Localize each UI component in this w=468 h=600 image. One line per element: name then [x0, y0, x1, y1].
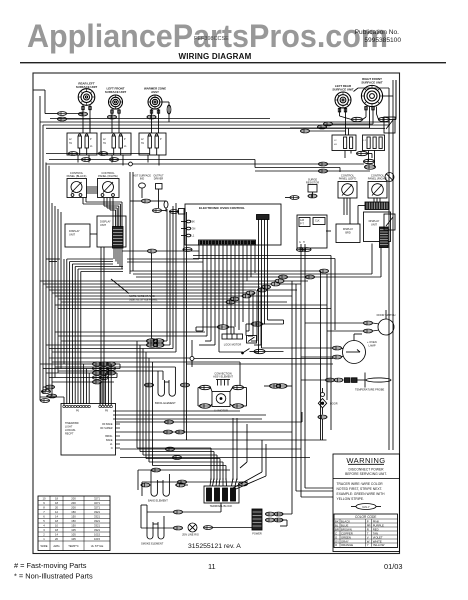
right edge indicator circle	[385, 173, 394, 182]
control panel switch (black)	[67, 171, 87, 198]
svg-text:BRD: BRD	[345, 231, 350, 234]
terminal block	[204, 478, 239, 508]
hot surface indicator	[130, 172, 166, 274]
left bundle connector cluster	[40, 362, 120, 384]
svg-text:LAMP: LAMP	[369, 343, 376, 347]
svg-text:BEFORE SERVICING UNIT.: BEFORE SERVICING UNIT.	[345, 472, 387, 476]
svg-text:TEMP°C: TEMP°C	[68, 544, 79, 548]
svg-text:CLK: CLK	[315, 220, 320, 223]
svg-text:SURFACE UNIT: SURFACE UNIT	[332, 87, 354, 91]
svg-text:G: G	[299, 241, 301, 244]
svg-text:LH MOTOR: LH MOTOR	[214, 409, 228, 413]
EOC terminal strip	[199, 240, 256, 245]
clock box output ovals	[296, 231, 331, 251]
surface switch LR	[332, 135, 356, 151]
title underline	[20, 62, 446, 63]
latch switch diamond	[318, 388, 338, 440]
right mid bus wires	[210, 151, 376, 173]
svg-text:3321: 3321	[94, 528, 100, 532]
left bundle fan to center cascade	[40, 281, 275, 302]
svg-text:3321: 3321	[94, 524, 100, 528]
svg-text:RF SUPER: RF SUPER	[100, 427, 112, 430]
control panel switch (white)	[98, 171, 120, 198]
svg-text:H: H	[303, 241, 305, 244]
svg-text:TEMPERATURE PROBE: TEMPERATURE PROBE	[355, 388, 384, 392]
svg-text:RF BAKE: RF BAKE	[102, 423, 113, 426]
bake element	[141, 470, 188, 503]
svg-text:105: 105	[71, 528, 76, 532]
control panel drop verticals	[167, 203, 187, 440]
svg-text:* = Non-Illustrated Parts: * = Non-Illustrated Parts	[14, 572, 93, 581]
clock pin drop wires	[278, 252, 333, 497]
svg-text:N: N	[111, 447, 113, 450]
control panel switch (right)	[368, 174, 388, 199]
LH motor	[198, 384, 292, 413]
connector ovals on right coil feed row	[290, 80, 396, 135]
wires into control board pins	[40, 364, 111, 405]
svg-text:UNIT: UNIT	[100, 223, 106, 227]
svg-text:ASSY ELEMENT: ASSY ELEMENT	[213, 375, 233, 379]
svg-text:WIRE: WIRE	[40, 544, 47, 548]
svg-text:01/03: 01/03	[384, 562, 403, 571]
svg-text:FEF398CCSE: FEF398CCSE	[194, 36, 229, 42]
ribbon cable horizontal	[365, 202, 389, 210]
wire stems from coils down to switches	[82, 105, 377, 133]
warning box	[333, 454, 400, 552]
svg-text:SURFACE UNIT: SURFACE UNIT	[76, 85, 98, 89]
svg-text:18: 18	[55, 528, 58, 532]
svg-text:P-T: P-T	[300, 223, 304, 226]
broil element	[144, 367, 189, 405]
power cord loop	[141, 503, 252, 537]
svg-text:3271: 3271	[94, 506, 100, 510]
svg-text:1015: 1015	[94, 533, 100, 537]
svg-text:Publication No.: Publication No.	[355, 29, 400, 36]
svg-text:3271: 3271	[94, 497, 100, 501]
svg-text:200: 200	[71, 497, 76, 501]
svg-text:WIRING DIAGRAM: WIRING DIAGRAM	[178, 52, 251, 61]
svg-text:WARNING: WARNING	[346, 456, 385, 465]
svg-text:SMOKE ELEMENT: SMOKE ELEMENT	[141, 542, 164, 546]
surface unit coil: left front	[105, 87, 127, 110]
svg-text:DRIVER: DRIVER	[154, 178, 164, 181]
display unit box right with ribbon connector	[364, 212, 391, 248]
surface switch LF	[101, 133, 131, 155]
display board box	[336, 224, 360, 243]
svg-text:IND: IND	[140, 178, 145, 181]
footer fast-moving parts note	[14, 561, 93, 581]
svg-text:YELLOW: YELLOW	[373, 543, 385, 547]
svg-text:UNIT: UNIT	[69, 232, 75, 236]
svg-text:SIZE, UL STYLE PANEL: SIZE, UL STYLE PANEL	[129, 297, 158, 301]
svg-text:150: 150	[71, 510, 76, 514]
svg-text:150: 150	[71, 515, 76, 519]
svg-text:14: 14	[55, 533, 58, 537]
svg-text:315255121 rev. A: 315255121 rev. A	[188, 543, 241, 550]
cascade corner drops	[246, 287, 263, 345]
convection assy element	[213, 372, 233, 386]
svg-text:GN: GN	[192, 228, 196, 231]
svg-text:150: 150	[71, 524, 76, 528]
svg-text:10: 10	[43, 497, 46, 501]
svg-text:BROIL ELEMENT: BROIL ELEMENT	[155, 401, 176, 405]
svg-text:UNIT: UNIT	[371, 222, 377, 226]
control panel switch (left)	[338, 174, 357, 199]
output driver	[152, 175, 185, 215]
door switch	[305, 310, 395, 335]
svg-text:5995385100: 5995385100	[364, 37, 401, 44]
svg-text:AWG: AWG	[53, 544, 59, 548]
right edge component lower	[384, 214, 395, 230]
switch output drop wires	[78, 151, 375, 168]
surface unit coil: left rear	[332, 84, 354, 108]
svg-text:SURFACE UNIT: SURFACE UNIT	[361, 80, 383, 84]
smoke eliminator element	[141, 512, 164, 546]
left edge feed wires	[34, 90, 91, 132]
svg-text:11: 11	[208, 562, 216, 571]
svg-text:GN-Y: GN-Y	[362, 505, 370, 509]
svg-text:20: 20	[55, 506, 58, 510]
svg-text:PANEL (BLACK): PANEL (BLACK)	[67, 174, 87, 178]
svg-text:RECPT: RECPT	[65, 433, 74, 436]
oven lamp	[296, 334, 377, 364]
svg-text:DISCONNECT POWER: DISCONNECT POWER	[348, 468, 384, 472]
svg-text:105: 105	[71, 533, 76, 537]
svg-text:TRACER WIRE: WIRE COLOR: TRACER WIRE: WIRE COLOR	[337, 482, 384, 486]
ribbon fan-out wires to board pin verticals	[46, 259, 123, 404]
svg-text:UL STYLE: UL STYLE	[91, 544, 104, 548]
svg-text:EXAMPLE: GREEN WIRE WITH: EXAMPLE: GREEN WIRE WITH	[337, 492, 386, 496]
svg-text:NOTED FIRST, STRIPE NEXT.: NOTED FIRST, STRIPE NEXT.	[337, 487, 383, 491]
svg-text:PANEL (WHITE): PANEL (WHITE)	[98, 174, 118, 178]
svg-text:ASSY: ASSY	[151, 90, 159, 94]
connector ovals on coil leads	[57, 112, 156, 121]
display unit small box far left	[65, 224, 97, 247]
svg-text:3321: 3321	[94, 519, 100, 523]
svg-text:10: 10	[55, 524, 58, 528]
right edge component upper	[384, 117, 395, 133]
svg-text:3271: 3271	[94, 501, 100, 505]
svg-text:BROIL: BROIL	[105, 435, 113, 438]
svg-text:RESISTOR: RESISTOR	[306, 180, 319, 184]
electronic oven control box	[181, 204, 296, 352]
svg-text:PANEL (LEFT): PANEL (LEFT)	[339, 177, 357, 181]
clock interface box	[297, 215, 327, 252]
surge resistor	[285, 178, 319, 200]
surface unit coil: right front	[361, 77, 383, 107]
svg-text:105: 105	[71, 537, 76, 541]
warmer zone feed connector	[162, 102, 171, 122]
svg-text:Y: Y	[367, 543, 369, 547]
svg-text:# = Fast-moving Parts: # = Fast-moving Parts	[14, 561, 87, 570]
svg-text:3321: 3321	[94, 515, 100, 519]
bottom horizontal runs with connectors	[113, 411, 327, 496]
center horizontal buses below EOC	[55, 244, 381, 431]
left vertical wire bundle	[40, 122, 64, 397]
warmer switch	[139, 133, 166, 155]
temperature probe	[301, 373, 391, 392]
svg-text:SURFACE UNIT: SURFACE UNIT	[105, 90, 127, 94]
svg-text:POWER: POWER	[252, 533, 262, 536]
surface switch RL	[67, 133, 97, 155]
power connector strip	[252, 509, 292, 536]
terminal block feed corners	[137, 341, 266, 489]
lock motor assembly	[186, 322, 333, 367]
publication number	[355, 29, 402, 44]
surface switch RF	[363, 135, 385, 151]
svg-text:150: 150	[71, 519, 76, 523]
EOC drop wires center bundle	[196, 245, 255, 352]
svg-text:BK: BK	[192, 221, 196, 224]
svg-text:1015: 1015	[94, 537, 100, 541]
svg-text:DOOR: DOOR	[330, 403, 338, 406]
surface unit coil: warmer zone	[144, 87, 166, 110]
mid horizontal runs y330-360	[46, 247, 240, 403]
svg-text:200: 200	[71, 506, 76, 510]
svg-text:18: 18	[55, 519, 58, 523]
svg-text:3321: 3321	[94, 510, 100, 514]
right area vertical wires	[292, 80, 396, 514]
svg-text:18: 18	[55, 497, 58, 501]
svg-text:ORANGE: ORANGE	[341, 543, 353, 547]
svg-text:20: 20	[55, 537, 58, 541]
bundle end connectors	[40, 382, 57, 402]
svg-text:YELLOW STRIPE.: YELLOW STRIPE.	[337, 497, 365, 501]
control panel to display drop wires	[344, 198, 380, 225]
oven control board	[61, 404, 120, 456]
svg-text:14: 14	[55, 515, 58, 519]
svg-text:NOTE: WIRE AT AWG: NOTE: WIRE AT AWG	[129, 294, 155, 298]
inter-panel wires	[87, 187, 98, 193]
svg-text:BAKE: BAKE	[106, 439, 113, 442]
svg-text:BAKE ELEMENT: BAKE ELEMENT	[148, 499, 168, 503]
svg-text:18: 18	[55, 501, 58, 505]
svg-text:JDN LINE RIG: JDN LINE RIG	[182, 533, 199, 537]
svg-text:ELECTRONIC OVEN CONTROL: ELECTRONIC OVEN CONTROL	[199, 206, 245, 210]
display unit box left	[97, 216, 126, 247]
control panel output wire bundle	[83, 198, 122, 229]
svg-text:PANEL (RIGHT): PANEL (RIGHT)	[368, 177, 388, 181]
svg-text:LOCK MOTOR: LOCK MOTOR	[224, 343, 242, 347]
schematic frame border	[33, 73, 400, 554]
surface unit coil: rear left	[76, 82, 98, 106]
mid-left bus wires with junction	[46, 152, 210, 166]
top horizontal bus wires	[40, 119, 390, 129]
ribbon cable band	[113, 227, 124, 270]
cascade connector ovals	[226, 279, 308, 304]
note text wire gauge	[111, 279, 158, 301]
svg-text:200: 200	[71, 501, 76, 505]
coil to frame-right wires	[354, 88, 394, 133]
color code table	[334, 514, 398, 548]
wire gauge table	[38, 496, 110, 551]
svg-text:12: 12	[55, 510, 58, 514]
